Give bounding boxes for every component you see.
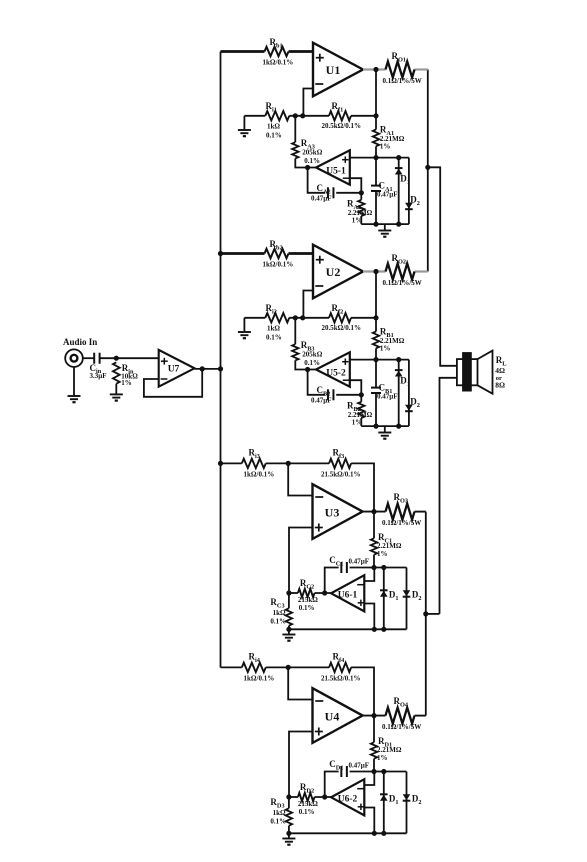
svg-text:Audio In: Audio In — [63, 337, 97, 347]
svg-text:1%: 1% — [352, 419, 363, 427]
svg-text:215kΩ: 215kΩ — [298, 596, 318, 604]
svg-text:2.21MΩ: 2.21MΩ — [377, 746, 402, 754]
svg-text:0.47µF: 0.47µF — [311, 195, 332, 203]
svg-text:0.1Ω/1%/5W: 0.1Ω/1%/5W — [382, 723, 421, 731]
svg-text:205kΩ: 205kΩ — [302, 351, 322, 359]
svg-text:0.1%: 0.1% — [270, 818, 286, 826]
svg-text:21.5kΩ/0.1%: 21.5kΩ/0.1% — [321, 675, 360, 683]
svg-text:0.47µF: 0.47µF — [311, 397, 332, 405]
svg-text:205kΩ: 205kΩ — [302, 149, 322, 157]
svg-text:1%: 1% — [377, 754, 388, 762]
svg-text:0.1%: 0.1% — [266, 132, 282, 140]
svg-text:1kΩ/0.1%: 1kΩ/0.1% — [263, 59, 294, 67]
svg-text:1kΩ: 1kΩ — [267, 325, 280, 333]
svg-text:U3: U3 — [325, 506, 340, 520]
svg-text:1kΩ: 1kΩ — [273, 609, 286, 617]
svg-text:20.5kΩ/0.1%: 20.5kΩ/0.1% — [322, 324, 361, 332]
svg-text:1%: 1% — [121, 379, 132, 387]
svg-text:1kΩ/0.1%: 1kΩ/0.1% — [244, 675, 275, 683]
svg-text:8Ω: 8Ω — [495, 381, 505, 390]
svg-text:21.5kΩ/0.1%: 21.5kΩ/0.1% — [321, 471, 360, 479]
svg-text:3.3µF: 3.3µF — [90, 372, 107, 380]
svg-text:U4: U4 — [325, 710, 340, 724]
svg-text:1%: 1% — [380, 142, 391, 150]
svg-text:1%: 1% — [380, 344, 391, 352]
svg-text:215kΩ: 215kΩ — [298, 800, 318, 808]
svg-text:0.47µF: 0.47µF — [349, 558, 370, 566]
svg-text:U7: U7 — [168, 365, 180, 375]
svg-text:0.1Ω/1%/5W: 0.1Ω/1%/5W — [383, 279, 422, 287]
svg-text:0.1Ω/1%/5W: 0.1Ω/1%/5W — [383, 77, 422, 85]
svg-text:U1: U1 — [326, 63, 341, 77]
svg-text:0.1%: 0.1% — [304, 359, 320, 367]
svg-text:20.5kΩ/0.1%: 20.5kΩ/0.1% — [322, 122, 361, 130]
svg-text:1kΩ: 1kΩ — [267, 123, 280, 131]
svg-text:U6-2: U6-2 — [338, 794, 358, 804]
svg-text:0.47µF: 0.47µF — [377, 393, 398, 401]
svg-text:1%: 1% — [352, 217, 363, 225]
svg-text:0.1%: 0.1% — [270, 618, 286, 626]
svg-text:1kΩ/0.1%: 1kΩ/0.1% — [263, 261, 294, 269]
svg-text:0.1%: 0.1% — [299, 808, 315, 816]
svg-text:0.47µF: 0.47µF — [377, 191, 398, 199]
svg-text:0.1%: 0.1% — [299, 604, 315, 612]
svg-text:U5-1: U5-1 — [326, 167, 346, 177]
svg-text:4Ω: 4Ω — [495, 366, 505, 375]
svg-text:1kΩ/0.1%: 1kΩ/0.1% — [244, 471, 275, 479]
svg-text:1kΩ: 1kΩ — [273, 809, 286, 817]
svg-text:1%: 1% — [377, 550, 388, 558]
svg-text:2.21MΩ: 2.21MΩ — [377, 542, 402, 550]
svg-text:U6-1: U6-1 — [338, 590, 358, 600]
svg-text:0.1Ω/1%/5W: 0.1Ω/1%/5W — [382, 519, 421, 527]
svg-text:U2: U2 — [326, 265, 341, 279]
svg-text:U5-2: U5-2 — [326, 369, 346, 379]
svg-text:0.47µF: 0.47µF — [349, 762, 370, 770]
svg-text:0.1%: 0.1% — [304, 157, 320, 165]
svg-text:0.1%: 0.1% — [266, 334, 282, 342]
